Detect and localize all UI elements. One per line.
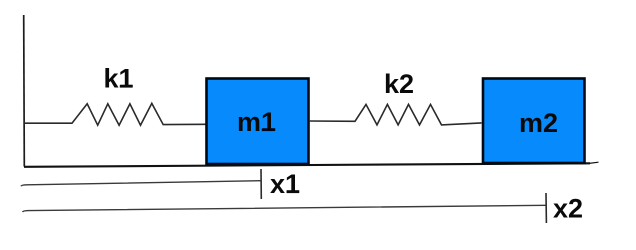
ground xyxy=(24,162,599,167)
svg-text:m1: m1 xyxy=(237,107,276,137)
spring k2 xyxy=(309,104,482,125)
x1 measurement line xyxy=(21,181,261,187)
svg-text:x2: x2 xyxy=(553,194,583,224)
label m1 xyxy=(237,107,276,137)
label k1 xyxy=(103,64,133,94)
svg-text:k2: k2 xyxy=(384,69,414,99)
x2 measurement line xyxy=(23,205,547,212)
wall xyxy=(23,15,26,167)
spring k1 xyxy=(24,103,207,125)
mass m2 xyxy=(483,79,585,164)
svg-text:m2: m2 xyxy=(519,108,558,138)
mass m1 xyxy=(207,79,309,165)
svg-text:k1: k1 xyxy=(103,64,133,94)
x1 tick xyxy=(260,169,262,199)
label x1 xyxy=(270,169,300,199)
svg-text:x1: x1 xyxy=(270,169,300,199)
x2 tick xyxy=(545,193,547,223)
